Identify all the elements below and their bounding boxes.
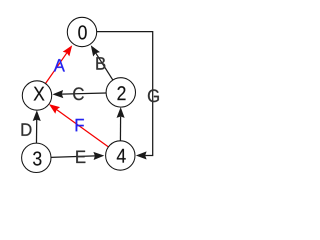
node 2 xyxy=(106,78,135,107)
label F (blue) xyxy=(76,119,84,131)
wire edge E (3 to 4) xyxy=(51,152,104,160)
wire edge D (3 to X) xyxy=(33,110,41,143)
label C xyxy=(73,87,84,100)
node X xyxy=(22,81,51,110)
node 0 xyxy=(67,17,96,46)
label E xyxy=(76,151,85,163)
node 4 xyxy=(106,141,135,170)
wire edge B (2 to 0) xyxy=(91,45,113,80)
wire edge F (4 to X, red) xyxy=(49,104,108,147)
wire edge A (X to 0, red) xyxy=(46,45,73,83)
label B xyxy=(96,57,105,69)
wire edge C (2 to X) xyxy=(52,90,106,98)
label D xyxy=(22,123,32,135)
label G xyxy=(148,89,159,102)
wire edge 4 to 2 (unlabeled) xyxy=(117,107,125,141)
node 3 xyxy=(22,143,51,172)
wire edge G (0 to 4, around right side) xyxy=(97,32,153,160)
label A (blue) xyxy=(54,59,65,71)
